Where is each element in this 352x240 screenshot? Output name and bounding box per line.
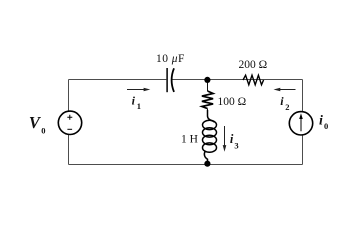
node B bottom junction dot [204, 161, 210, 167]
node A top junction dot [204, 77, 210, 83]
inductor 1H coil turn 1 [203, 120, 217, 129]
current source arrow inside [300, 118, 302, 132]
wire middle branch between resistor and inductor [207, 109, 209, 111]
svg-text:10 μF: 10 μF [156, 53, 185, 65]
wire right vertical lower [302, 135, 304, 165]
wire bottom [69, 164, 303, 166]
wire right vertical upper [302, 80, 304, 113]
svg-text:i: i [230, 132, 234, 146]
svg-text:200 Ω: 200 Ω [239, 59, 268, 71]
current source i0 circle [289, 112, 312, 135]
inductor 1H coil turn 2 [203, 128, 217, 137]
svg-text:2: 2 [285, 102, 289, 112]
svg-text:1: 1 [137, 101, 141, 111]
inductor 1H coil turn 4 [203, 143, 217, 152]
svg-text:3: 3 [234, 140, 238, 150]
current arrow i1 [127, 89, 146, 91]
voltage source plus sign [67, 115, 72, 120]
wire left vertical lower [68, 134, 70, 164]
svg-text:1 H: 1 H [181, 134, 198, 146]
wire top-left segment [69, 79, 167, 81]
resistor 100 ohm zigzag vertical [202, 91, 213, 109]
wire middle branch lower lead [207, 160, 209, 164]
voltage source V0 circle [58, 111, 81, 134]
resistor 200 ohm zigzag [243, 75, 264, 85]
current arrow i2 [278, 89, 296, 91]
svg-text:100 Ω: 100 Ω [218, 96, 247, 108]
svg-text:0: 0 [41, 125, 45, 135]
current arrow i3 [224, 126, 226, 148]
svg-text:i: i [319, 113, 323, 128]
wire middle branch upper lead [207, 80, 209, 92]
capacitor C 10uF left plate [166, 68, 168, 92]
wire top-right segment from capacitor to right corner [172, 79, 303, 81]
capacitor C 10uF right curved plate [172, 68, 174, 92]
inductor 1H coil turn 3 [203, 135, 217, 144]
wire left vertical upper [68, 80, 70, 112]
svg-text:0: 0 [324, 121, 328, 131]
inductor 1H coil lead and hook [208, 110, 215, 122]
inductor 1H coil tail [204, 151, 207, 163]
voltage source minus sign [67, 128, 72, 130]
